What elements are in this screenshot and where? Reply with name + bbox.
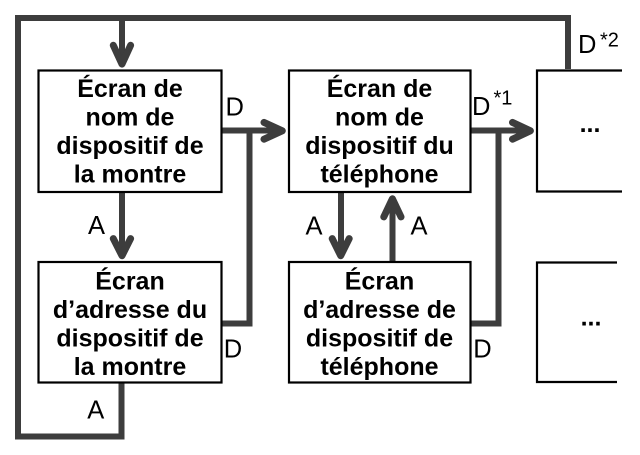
svg-text:dispositif de: dispositif de [56,132,203,160]
box5: partial right box top (...) [537,71,622,192]
wire D arrow shaft box1 to box2 [222,128,277,134]
svg-text:la montre: la montre [74,353,187,381]
svg-text:téléphone: téléphone [320,353,438,381]
svg-text:nom de: nom de [86,104,175,132]
box1: Ecran de nom de dispositif de la montre [39,71,222,193]
wire D from box3 right up to D arrow [222,131,250,324]
svg-text:Écran de: Écran de [327,74,433,103]
svg-text:Écran: Écran [345,267,414,296]
box3: Ecran d'adresse du dispositif de la montre [39,262,222,383]
svg-text:D: D [472,93,490,121]
svg-text:d’adresse de: d’adresse de [303,296,456,324]
svg-text:téléphone: téléphone [320,161,438,189]
svg-text:dispositif de: dispositif de [306,325,453,353]
svg-text:Écran de: Écran de [77,74,183,103]
box4: Ecran d'adresse de dispositif de telephone [289,262,471,383]
wire A-loop trunk (box3 bottom, down, left, up left side, along top, D*2 stub down to right box) [18,18,568,437]
svg-text:D: D [473,336,491,364]
arrowhead down into box3 [113,239,130,256]
svg-text:dispositif de: dispositif de [56,325,203,353]
svg-text:A: A [306,213,323,241]
svg-text:D: D [226,94,244,122]
svg-text:A: A [411,213,428,241]
wire D from box4 right up to D*1 arrow [470,131,499,324]
arrowhead right into box5 [513,122,531,139]
arrowhead up into box2 [384,199,401,217]
wire A arrow box4 up to box2 [390,203,396,261]
svg-text:*1: *1 [494,88,513,110]
box6: partial right box bottom (...) [537,263,617,383]
svg-text:*2: *2 [600,30,619,52]
svg-text:nom de: nom de [335,104,424,132]
svg-text:A: A [88,212,105,240]
svg-text:...: ... [580,110,601,138]
wire A arrow box2 down to box4 [338,192,344,252]
wire D*1 arrow shaft box2 to box5 [470,128,525,134]
svg-text:D: D [224,336,242,364]
wire A arrow box1 to box3 [119,192,125,252]
svg-text:...: ... [581,304,602,332]
svg-text:D: D [578,31,596,59]
arrowhead down into box4 [332,239,349,256]
svg-text:la montre: la montre [74,161,187,189]
arrowhead down into box1 [113,45,130,64]
arrowhead right into box2 [264,122,282,139]
svg-text:d’adresse du: d’adresse du [53,296,207,324]
svg-text:A: A [87,397,104,425]
svg-text:Écran: Écran [95,267,164,296]
wire arrow shaft into box1 [119,18,125,60]
svg-text:dispositif du: dispositif du [305,132,454,160]
box2: Ecran de nom de dispositif du telephone [289,71,471,193]
